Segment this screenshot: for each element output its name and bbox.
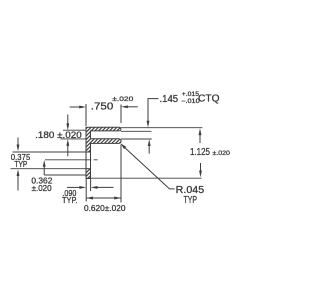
- dimension .750: right extension line: [120, 105, 122, 124]
- dimension 0.620: right extension line: [120, 145, 122, 203]
- extension line y=138.9 left of part: [61, 138, 87, 140]
- dimension .090: left extension line below bar: [85, 179, 87, 202]
- dimension .145 CTQ leader: [147, 99, 159, 128]
- hole top edge extension line left: [13, 151, 86, 153]
- hole bottom edge extension line left: [11, 168, 86, 170]
- top face extension line right: [121, 127, 203, 129]
- svg-text:±.020: ±.020: [212, 150, 230, 157]
- dimension .180: bottom up arrow: [66, 139, 69, 156]
- dimension .090: right arrow: [91, 186, 114, 189]
- dimension 0.620: dimension line with outward arrows: [86, 197, 121, 200]
- svg-text:TYP.: TYP.: [62, 195, 78, 205]
- part cross-section outline (F-shaped clip, hatched): [86, 127, 121, 178]
- second arm top extension line right: [121, 138, 152, 140]
- svg-text:.750: .750: [91, 101, 114, 112]
- dimension .180: top down arrow: [66, 115, 69, 131]
- 0.362 reference line: [44, 174, 86, 176]
- dimension .750: left arrow: [70, 106, 86, 109]
- svg-text:.180 ±.020: .180 ±.020: [35, 130, 82, 140]
- dimension 0.375: top down arrow: [17, 138, 20, 152]
- bottom face extension line right: [86, 177, 202, 179]
- dimension .090: left arrow: [67, 186, 86, 189]
- hole in vertical leg (unhatched window): [87, 152, 90, 168]
- dimension 1.125: up arrow to top face: [199, 128, 202, 143]
- dimension .750: right arrow: [121, 105, 138, 108]
- hole bottom edge: [86, 168, 91, 170]
- hole centerline: [45, 159, 98, 161]
- svg-text:CTQ: CTQ: [198, 93, 220, 104]
- dimension 0.362: up arrow to centerline: [43, 160, 46, 175]
- extension line y=130.4 left of part: [63, 129, 86, 131]
- svg-text:.145: .145: [160, 94, 179, 105]
- dimension .750: left extension line: [85, 104, 87, 126]
- svg-text:0.620±.020: 0.620±.020: [84, 203, 126, 213]
- dimension .145: up arrow to slot bottom: [148, 139, 151, 153]
- leader R.045 to arm corner: [121, 143, 175, 189]
- dimension 0.375: bottom up arrow: [17, 169, 20, 190]
- svg-text:TYP: TYP: [184, 195, 198, 206]
- svg-text:1.125: 1.125: [190, 147, 210, 158]
- svg-text:±.020: ±.020: [112, 96, 133, 103]
- top arm bottom extension line right: [121, 130, 152, 132]
- svg-text:±.020: ±.020: [32, 183, 52, 193]
- dimension 1.125: down arrow to bottom face: [199, 163, 202, 177]
- hole top edge: [86, 151, 91, 153]
- dimension .090: right extension line below bar: [90, 179, 92, 192]
- svg-text:TYP: TYP: [14, 159, 27, 169]
